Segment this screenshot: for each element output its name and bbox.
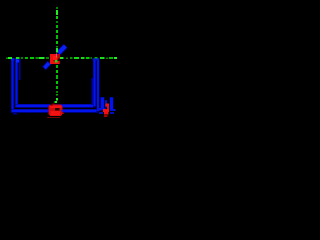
cursor pick square bright bottom bar bbox=[50, 61, 59, 64]
wire outer-loop bottom horizontal (halo) bbox=[11, 109, 98, 113]
wire inner-loop right vertical (halo) bbox=[93, 58, 96, 107]
wire inner-loop left vertical bbox=[16, 58, 18, 106]
wire inner-loop bottom horizontal (halo) bbox=[15, 104, 95, 108]
axis dash blend on square top bbox=[56, 56, 57, 57]
cursor pick square bright center bbox=[53, 56, 58, 60]
connector symbol bar A bbox=[101, 98, 104, 109]
wire top-left corner stub bbox=[11, 58, 15, 60]
pin label 5 mid mass bbox=[103, 109, 109, 112]
connector symbol left foot bbox=[99, 108, 106, 110]
junction dot speck above bbox=[53, 103, 55, 104]
junction dot interior wire glint bbox=[61, 110, 63, 112]
wire outer-loop right vertical (halo) bbox=[96, 58, 99, 112]
wire stub below bottom-left corner bbox=[13, 113, 17, 115]
wire top-right corner stub bbox=[93, 58, 100, 60]
junction dot dark nick upper bbox=[50, 104, 53, 105]
axis dash over right wires bbox=[95, 57, 98, 59]
pin label 5 tail bbox=[104, 115, 107, 117]
wire outer-loop left vertical bbox=[12, 58, 14, 111]
junction dot purple speck left bbox=[48, 110, 49, 112]
wire inner-loop bottom horizontal bbox=[16, 105, 95, 108]
cursor diagonal upper segment (halo) bbox=[58, 46, 66, 54]
cursor pick square (fill) bbox=[50, 54, 60, 64]
connector symbol lower-left dash bbox=[99, 112, 103, 114]
connector symbol right foot bbox=[110, 109, 115, 111]
junction dot bottom-center (base blob) bbox=[49, 104, 63, 116]
cursor diagonal upper segment bbox=[58, 46, 65, 53]
wire outer-loop left vertical (halo) bbox=[11, 58, 14, 112]
cursor pick square bright left bar bbox=[50, 54, 53, 64]
wire outer-loop right vertical bbox=[97, 58, 99, 111]
pin label 5 top block bbox=[106, 104, 109, 107]
cursor pick square bright top bar bbox=[50, 54, 57, 56]
axis endpoint bright dot bbox=[54, 101, 57, 103]
wire outer-loop bottom horizontal bbox=[12, 110, 99, 113]
pin label 5 bottom block bbox=[104, 112, 108, 115]
wire inner-loop right vertical bbox=[94, 58, 96, 106]
connector symbol lower-right dash bbox=[110, 112, 114, 114]
wire stub faint right bbox=[91, 78, 93, 105]
canvas background bbox=[0, 0, 128, 128]
junction dot underline bbox=[47, 117, 60, 118]
connector symbol bar C bbox=[110, 98, 113, 110]
axis horizontal dashes bbox=[6, 57, 117, 59]
pin label 5 right stem bbox=[107, 106, 109, 109]
cursor diagonal lower segment (halo) bbox=[44, 63, 50, 69]
cursor pick square dark notch bbox=[58, 59, 60, 61]
cursor pick square magenta corner pixel bbox=[56, 54, 57, 56]
axis vertical dashes bbox=[56, 7, 58, 101]
junction dot bright top bar bbox=[50, 106, 62, 109]
wire stub faint left bbox=[19, 59, 21, 80]
axis dash visible on square bbox=[55, 60, 57, 63]
connector symbol bar B bbox=[105, 100, 107, 108]
wire top-left inner stub bbox=[16, 60, 19, 63]
junction dot bright bottom mass bbox=[51, 111, 61, 116]
junction dot dark interior bbox=[55, 108, 60, 111]
connector symbol bar C halo bbox=[109, 97, 113, 110]
cursor diagonal lower segment bbox=[45, 63, 50, 68]
connector symbol bar A halo bbox=[100, 97, 105, 109]
junction dot speck right bbox=[63, 113, 64, 114]
wire inner-loop left vertical (halo) bbox=[15, 58, 18, 107]
